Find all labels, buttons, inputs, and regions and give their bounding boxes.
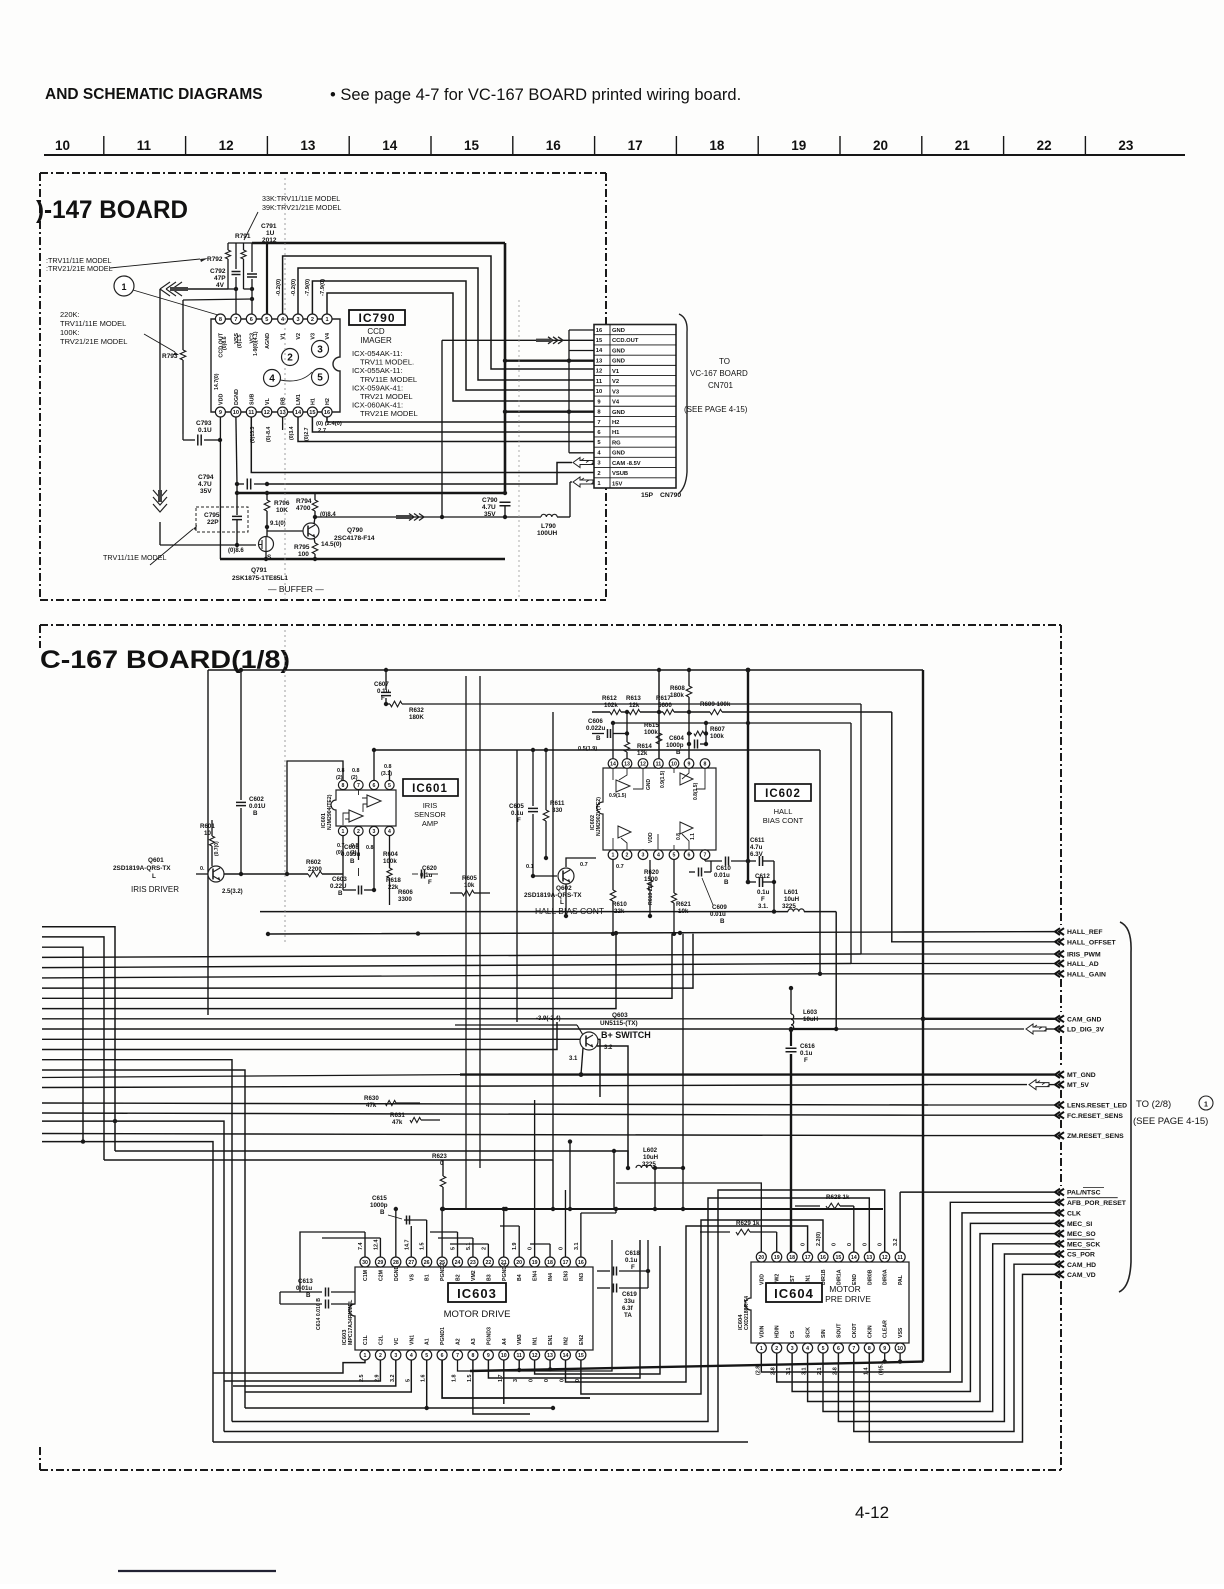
svg-text:B: B (724, 879, 729, 886)
wire RG pin14 to CN790 (298, 417, 594, 442)
resistor R613 (629, 709, 640, 714)
wire x553 vertical upper (552, 712, 554, 1160)
svg-text:PGND3: PGND3 (486, 1327, 492, 1345)
svg-text:TRV11/11E MODEL: TRV11/11E MODEL (103, 553, 167, 562)
svg-text:F: F (804, 1057, 808, 1064)
wire V2 pin3 to CN790 (298, 268, 594, 380)
wire left drop x160 (159, 289, 161, 500)
resistor R610 (612, 860, 614, 890)
svg-text:CXD2188R-T4: CXD2188R-T4 (744, 1296, 750, 1330)
wire CCD.OUT riser (441, 340, 443, 517)
svg-text:B: B (338, 890, 343, 897)
inductor L790 (505, 516, 541, 518)
svg-text:RB: RB (281, 397, 287, 405)
ruler tick (594, 136, 596, 154)
wire bus L22 (42, 1142, 213, 1442)
svg-text:NJM2902V(TE2): NJM2902V(TE2) (596, 797, 602, 836)
bracket TO 2/8 (1119, 922, 1131, 1292)
IC601 pin 7 (354, 780, 363, 789)
svg-text:100UH: 100UH (537, 530, 558, 537)
svg-text:UN5115-(TX): UN5115-(TX) (600, 1020, 638, 1027)
connector CN790 row divider (594, 334, 676, 336)
svg-text:A1: A1 (425, 1338, 431, 1345)
IC604 pin 17 (803, 1252, 813, 1262)
svg-text:VC: VC (394, 1338, 400, 1345)
wire x466 vertical (465, 676, 467, 1209)
svg-text:VSUB: VSUB (612, 471, 628, 477)
svg-text:1: 1 (612, 853, 615, 859)
svg-text:IN3: IN3 (579, 1273, 585, 1281)
IC603 pin 14 (560, 1350, 570, 1360)
wire V4 pin1 to CN790 (327, 293, 594, 401)
node MEC_SO connector (1055, 1230, 1064, 1237)
svg-text:Q791: Q791 (251, 567, 267, 574)
connector CN790 box (594, 325, 676, 489)
wire x570 drop (569, 1142, 571, 1209)
svg-text:19: 19 (791, 138, 806, 153)
svg-text:C618: C618 (625, 1250, 640, 1257)
svg-text:10: 10 (596, 389, 602, 395)
svg-text:R612: R612 (602, 695, 617, 702)
wire node1 to IC790 pin8 (133, 290, 218, 315)
wire LD riser x837 (835, 912, 837, 1029)
connector CN790 row divider (594, 364, 676, 366)
svg-text:CLEAR: CLEAR (883, 1320, 889, 1338)
svg-text:VDD: VDD (648, 832, 654, 843)
svg-text:0.033u: 0.033u (341, 851, 360, 858)
node AFB_POR_RESET connector (1055, 1199, 1064, 1206)
svg-text:Q602: Q602 (556, 885, 572, 892)
resistor R795 (314, 538, 315, 543)
svg-text:2-8: 2-8 (832, 1367, 838, 1375)
svg-text:0.1U: 0.1U (198, 427, 212, 434)
svg-text:12: 12 (219, 138, 234, 153)
capacitor C794 (237, 483, 244, 485)
svg-text:2SK1875-1TE85L1: 2SK1875-1TE85L1 (232, 575, 288, 582)
svg-text:9: 9 (883, 1346, 886, 1352)
wire IC603 pin5 to y1408 (426, 1360, 428, 1408)
ruler tick (103, 136, 105, 154)
wire IC603 pin14 loop (566, 1226, 808, 1382)
svg-text:CS_POR: CS_POR (1067, 1252, 1095, 1259)
ruler tick (675, 136, 677, 154)
svg-text:0.7: 0.7 (580, 862, 588, 868)
resistor R617 (663, 709, 674, 714)
svg-text:21: 21 (955, 138, 971, 153)
svg-text:R611: R611 (550, 800, 565, 807)
svg-text:23: 23 (1118, 138, 1134, 153)
connector CN790 row divider (594, 354, 676, 356)
wire IC603 pin2 loop (224, 1360, 380, 1381)
wire pin20 riser (616, 1183, 761, 1252)
wire IC603 pin7 loop (458, 1240, 613, 1371)
svg-text:15: 15 (596, 338, 603, 344)
svg-text:VM2: VM2 (471, 1270, 477, 1281)
svg-text:R631: R631 (390, 1112, 405, 1119)
svg-text:HALL_GAIN: HALL_GAIN (1067, 971, 1106, 978)
node CAM_GND connector (1055, 1015, 1064, 1022)
svg-text:-3.9(-2.4): -3.9(-2.4) (536, 1016, 561, 1022)
svg-text:11: 11 (656, 762, 662, 768)
svg-text:C602: C602 (249, 796, 264, 803)
wire AGND heavy pin5 (266, 243, 268, 319)
svg-text:1: 1 (760, 1346, 763, 1352)
svg-text:29: 29 (378, 1260, 384, 1266)
fold mark vertical mid (518, 300, 520, 598)
svg-text:1.4: 1.4 (863, 1368, 869, 1376)
svg-text:F: F (381, 695, 385, 702)
op-amp/chip IC790 body (211, 319, 340, 412)
wire heavy VSS sloped (470, 1362, 923, 1371)
svg-text:V4: V4 (325, 333, 331, 340)
svg-text:6: 6 (373, 783, 376, 789)
svg-text:IRIS DRIVER: IRIS DRIVER (131, 885, 179, 894)
wire Q603 base line (455, 1024, 577, 1026)
svg-text:TRV11/11E MODEL: TRV11/11E MODEL (60, 319, 126, 328)
svg-text:4: 4 (657, 853, 660, 859)
IC604 pin 12 (880, 1252, 890, 1262)
IC604 pin 10 (895, 1343, 905, 1353)
svg-text:3: 3 (296, 317, 299, 323)
svg-text:LM1: LM1 (296, 394, 302, 405)
wire bus L2 (42, 937, 104, 1160)
IC602 pin 12 (638, 759, 648, 769)
svg-text:3: 3 (373, 829, 376, 835)
wire pin6 riser (373, 750, 375, 780)
transistor Q791 mosfet (259, 537, 274, 552)
ruler scale line (44, 154, 1185, 156)
svg-text:— BUFFER —: — BUFFER — (268, 584, 324, 594)
svg-text:14: 14 (610, 762, 616, 768)
resistor R623 (442, 1160, 444, 1176)
wire c613 left loop (279, 1292, 281, 1304)
svg-text:GND: GND (612, 359, 625, 365)
bracket right of CN790 (678, 314, 687, 494)
svg-text:PGND2: PGND2 (440, 1263, 446, 1281)
connector CN790 row divider (594, 344, 676, 346)
node LENS.RESET_LED connector (1055, 1102, 1064, 1109)
svg-text:17: 17 (628, 138, 643, 153)
IC602 pin 7 (700, 850, 710, 860)
op-amp IC602 body (597, 768, 716, 850)
svg-text:R614: R614 (637, 743, 652, 750)
svg-text:8: 8 (471, 1353, 474, 1359)
op-amp IC601 body (331, 790, 396, 826)
svg-text:15: 15 (578, 1353, 584, 1359)
op-amp IC603 body (349, 1267, 593, 1350)
svg-text:1.6: 1.6 (421, 1375, 427, 1383)
IC602 pin 3 (638, 850, 648, 860)
IC604 pin 14 (849, 1252, 859, 1262)
ruler tick (1003, 136, 1005, 154)
svg-text:V1: V1 (281, 333, 287, 340)
IC603 pin 19 (530, 1257, 540, 1267)
svg-text:(0)1.5: (0)1.5 (237, 334, 243, 348)
svg-text:0: 0 (544, 1379, 550, 1382)
svg-text:5: 5 (451, 1247, 457, 1250)
svg-text:C792: C792 (210, 268, 226, 275)
svg-text:12k: 12k (629, 702, 640, 709)
svg-text:C609: C609 (712, 904, 727, 911)
svg-text:0: 0 (558, 1247, 564, 1250)
svg-text:AMP: AMP (422, 819, 438, 828)
connector CN790 row divider (594, 375, 676, 377)
svg-text:C604: C604 (669, 735, 684, 742)
ruler tick (512, 136, 514, 154)
IC604 pin 5 (818, 1343, 828, 1353)
svg-text:(2.8): (2.8) (755, 1364, 761, 1375)
svg-text:CAM_VD: CAM_VD (1067, 1272, 1096, 1279)
svg-text:R608: R608 (670, 685, 685, 692)
svg-text:6: 6 (441, 1353, 444, 1359)
svg-text:V3: V3 (612, 389, 620, 395)
svg-text:(0)3.4: (0)3.4 (289, 426, 295, 440)
svg-text:180k: 180k (670, 692, 684, 699)
IC790 pin 14 (293, 407, 303, 417)
svg-text:HALL_REF: HALL_REF (1067, 929, 1103, 936)
IC790 pin 7 (231, 314, 241, 324)
svg-text:16: 16 (820, 1255, 826, 1261)
ruler tick (757, 136, 759, 154)
wire CAM_HD (854, 1264, 1055, 1431)
svg-text:10: 10 (204, 830, 211, 837)
node PAL/NTSC connector (1055, 1189, 1064, 1196)
IC603 pin 28 (391, 1257, 401, 1267)
capacitor C607 (385, 670, 387, 690)
svg-text:V3: V3 (310, 333, 316, 340)
svg-text:A2: A2 (456, 1338, 462, 1345)
node HALL_AD connector (1055, 960, 1064, 967)
svg-text:H2: H2 (325, 398, 331, 405)
svg-text:24: 24 (455, 1260, 461, 1266)
wire MEC_SI (792, 1223, 1055, 1391)
IC601 pin 5 (385, 780, 394, 789)
svg-text:11: 11 (596, 379, 603, 385)
wire bus L5 HALL_AD (42, 964, 851, 968)
wire IC603 top pin risers (364, 1232, 366, 1257)
IC603 pin 7 (453, 1350, 463, 1360)
svg-text:10: 10 (233, 410, 239, 416)
svg-text:10: 10 (897, 1346, 903, 1352)
svg-text:R796: R796 (274, 500, 290, 507)
svg-text:12: 12 (640, 762, 646, 768)
svg-text:100: 100 (298, 551, 309, 558)
IC602 pin 8 (700, 759, 710, 769)
IC603 pin 12 (530, 1350, 540, 1360)
IC603 pin 13 (545, 1350, 555, 1360)
resistor R632 (386, 703, 390, 705)
IC603 pin 11 (514, 1350, 524, 1360)
svg-text:R601: R601 (200, 823, 215, 830)
svg-text:0.8: 0.8 (366, 845, 374, 851)
svg-text:GND: GND (612, 410, 625, 416)
svg-text:TO (2/8): TO (2/8) (1136, 1099, 1171, 1110)
wire H1 pin15 to CN790 (312, 417, 594, 432)
IC604 pin 16 (818, 1252, 828, 1262)
svg-text:3.1: 3.1 (574, 1243, 580, 1251)
svg-text:B: B (596, 735, 601, 742)
svg-text:A3: A3 (471, 1338, 477, 1345)
svg-text:10uH: 10uH (784, 896, 800, 903)
wire IC603 pin11 stub (518, 1360, 520, 1370)
wire IC603 pin13 stub (549, 1360, 551, 1369)
IC603 pin 20 (514, 1257, 524, 1267)
svg-text:14: 14 (295, 410, 302, 416)
wire ZM.RESET_SENS (925, 1135, 1055, 1137)
board edge dash-dot segments (1060, 625, 1062, 925)
ruler tick (839, 136, 841, 154)
node LD_DIG_3V connector (1055, 1026, 1064, 1033)
wire CS_POR (838, 1254, 1055, 1422)
IC790 pin 3 (293, 314, 303, 324)
svg-text:R628 1k: R628 1k (826, 1194, 850, 1201)
svg-text:6.3f: 6.3f (622, 1305, 634, 1312)
svg-text:R793: R793 (162, 353, 178, 360)
connector CN790 row divider (594, 405, 676, 407)
svg-text:3.2: 3.2 (390, 1375, 396, 1383)
svg-text:1: 1 (342, 829, 345, 835)
wire pin9 CLEAR stub (884, 1353, 886, 1362)
wire V3 pin2 to CN790 (312, 281, 594, 390)
svg-text:MT_GND: MT_GND (1067, 1072, 1096, 1079)
svg-text:GND: GND (612, 451, 625, 457)
svg-text:23: 23 (470, 1260, 476, 1266)
wire IRIS_PWM riser (860, 704, 862, 954)
wire bus L8 (42, 934, 672, 999)
IC604 pin 2 (772, 1343, 782, 1353)
wire L602 drop (681, 1166, 685, 1170)
wire Q602 emitter (565, 884, 567, 916)
svg-text:6.3V: 6.3V (750, 851, 764, 858)
inductor L601 (788, 909, 804, 912)
IC602 pin 9 (684, 759, 694, 769)
resistor R621 (673, 860, 675, 893)
svg-text:)-147 BOARD: )-147 BOARD (36, 196, 188, 224)
svg-text:1.9: 1.9 (512, 1243, 518, 1251)
svg-text:4.7U: 4.7U (482, 504, 496, 511)
svg-text:1.8: 1.8 (452, 1375, 458, 1383)
svg-text:5: 5 (388, 783, 391, 789)
wire pin riser x613 (612, 723, 614, 759)
node CLK connector (1055, 1210, 1064, 1217)
svg-text:2: 2 (597, 471, 600, 477)
svg-text:16: 16 (324, 410, 330, 416)
svg-text:3: 3 (642, 853, 645, 859)
resistor R620 (649, 860, 651, 880)
wire CAM_VD (869, 1274, 1055, 1442)
node FC.RESET_SENS connector (1055, 1112, 1064, 1119)
svg-text:L: L (560, 899, 564, 906)
IC604 pin 18 (787, 1252, 797, 1262)
svg-text:1U: 1U (266, 230, 275, 237)
svg-text:7: 7 (597, 420, 600, 426)
wire bus L16 MT_GND (42, 1075, 460, 1078)
svg-text:MEC_SI: MEC_SI (1067, 1221, 1092, 1228)
wire heavy riser x748 (747, 670, 749, 882)
svg-text:C795: C795 (204, 512, 220, 519)
capacitor C611 (748, 860, 756, 862)
IC790 pin 10 (231, 407, 241, 417)
svg-text:(0.7(0): (0.7(0) (214, 841, 220, 856)
wire loop x213 (213, 1441, 748, 1443)
IC603 pin 18 (545, 1257, 555, 1267)
svg-text:L603: L603 (803, 1009, 818, 1016)
IC601 pin 4 (385, 826, 394, 835)
svg-text:0.022u: 0.022u (586, 725, 605, 732)
resistor R607 (689, 733, 692, 735)
svg-text:5: 5 (673, 853, 676, 859)
svg-text:5: 5 (265, 317, 268, 323)
wire HALL_OFFSET (891, 941, 1055, 943)
resistor R611 (545, 750, 547, 810)
svg-text:0: 0 (559, 1379, 565, 1382)
svg-text:47P: 47P (214, 275, 226, 282)
svg-text:SIN: SIN (821, 1329, 827, 1338)
svg-text:2: 2 (357, 829, 360, 835)
svg-text:IRIS_PWM: IRIS_PWM (1067, 952, 1101, 959)
svg-text:EN4: EN4 (533, 1271, 539, 1281)
svg-text:MOTOR: MOTOR (829, 1284, 860, 1294)
node HALL_REF connector (1055, 928, 1064, 935)
wire HALL_AD riser (850, 723, 852, 964)
IC790 pin 8 (215, 314, 225, 324)
wire bus L19 FC (42, 1113, 925, 1115)
svg-text:FC.RESET_SENS: FC.RESET_SENS (1067, 1113, 1123, 1120)
node HALL_GAIN connector (1055, 970, 1064, 977)
svg-text:100k: 100k (710, 733, 724, 740)
svg-text:3: 3 (791, 1346, 794, 1352)
IC790 internal arc (280, 372, 312, 381)
svg-text:• See page 4-7 for VC-167 BOAR: • See page 4-7 for VC-167 BOARD printed … (330, 86, 741, 104)
svg-text:H1: H1 (310, 398, 316, 405)
svg-text:3.2: 3.2 (893, 1239, 899, 1247)
IC603 pin 23 (468, 1257, 478, 1267)
svg-text:AND SCHEMATIC DIAGRAMS: AND SCHEMATIC DIAGRAMS (45, 86, 263, 103)
svg-text:2.5(3.2): 2.5(3.2) (222, 889, 243, 895)
svg-text:10K: 10K (276, 507, 288, 514)
wire IC603 pin9 loop (488, 1240, 640, 1378)
op-amp triangle IC601 b (349, 810, 363, 822)
IC602 pin 11 (654, 759, 664, 769)
op-amp triangle IC601 a (367, 795, 381, 807)
svg-text:EN3: EN3 (563, 1271, 569, 1281)
wire IRIS_PWM (861, 953, 1055, 955)
svg-text:VN1: VN1 (409, 1335, 415, 1345)
svg-text:C791: C791 (261, 223, 277, 230)
svg-text:R605: R605 (462, 875, 477, 882)
wire pin10 VSS stub (899, 1353, 901, 1362)
wire L2 run (104, 1159, 553, 1161)
svg-text:CAM_HD: CAM_HD (1067, 1262, 1096, 1269)
svg-text:0.1u: 0.1u (377, 688, 390, 695)
svg-text:2-8: 2-8 (771, 1367, 777, 1375)
wire pin18 staircase (530, 1243, 550, 1245)
svg-text:11: 11 (897, 1255, 903, 1261)
svg-text:1.1: 1.1 (690, 833, 696, 840)
svg-text:180K: 180K (409, 714, 424, 721)
wire bus L4 IRIS_PWM (42, 954, 861, 957)
wire heavy GND pin8 (505, 411, 594, 413)
wire MT_GND heavy (923, 1073, 1055, 1075)
svg-text:102k: 102k (604, 702, 618, 709)
IC602 pin 5 (669, 850, 679, 860)
IC604 pin 3 (787, 1343, 797, 1353)
svg-text:3225: 3225 (782, 903, 796, 910)
wire VSUB pin11 to CN790 (251, 417, 594, 473)
resistor R796 (266, 493, 268, 500)
svg-text:0: 0 (440, 1160, 444, 1167)
capacitor C792 (235, 243, 237, 269)
